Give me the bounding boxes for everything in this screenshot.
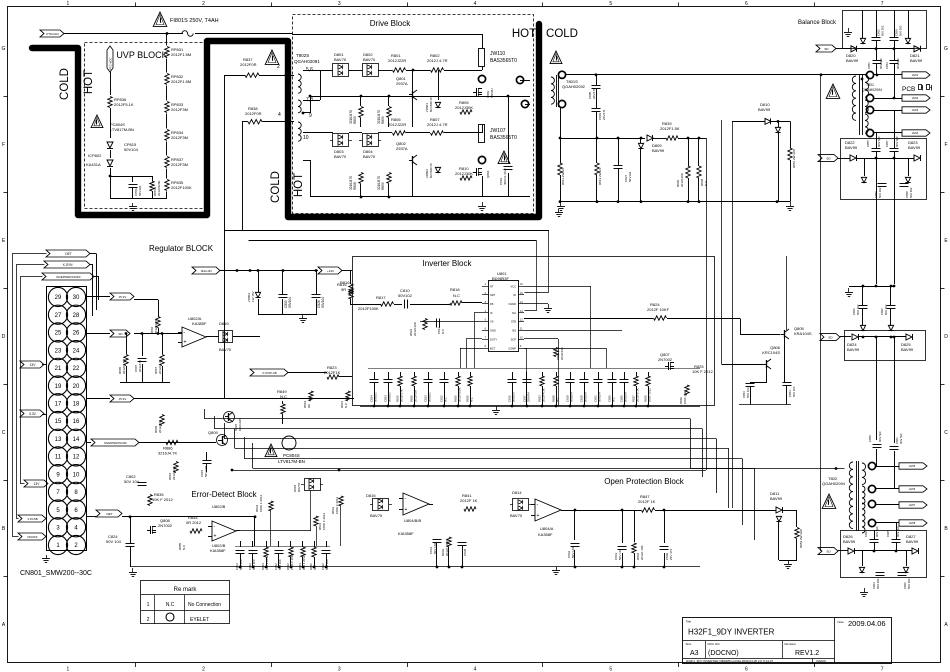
svg-text:50V104: 50V104 [570, 392, 574, 402]
svg-text:BAV99: BAV99 [758, 107, 771, 112]
svg-text:13V: 13V [30, 363, 37, 367]
svg-text:FI801S 250V, T4AH: FI801S 250V, T4AH [170, 18, 219, 24]
svg-text:3216J470: 3216J470 [377, 176, 381, 190]
svg-text:(DOCNO): (DOCNO) [708, 650, 739, 657]
svg-text:3216J470: 3216J470 [349, 176, 353, 190]
svg-text:HOT: HOT [293, 173, 305, 197]
svg-text:N.C: N.C [612, 397, 616, 402]
svg-text:2012J22R: 2012J22R [388, 122, 406, 127]
svg-text:2012J 4.7R: 2012J 4.7R [427, 58, 448, 63]
svg-text:BAV99: BAV99 [906, 539, 919, 544]
svg-text:LTV817M-BN: LTV817M-BN [278, 459, 305, 464]
svg-text:2012F20K: 2012F20K [680, 173, 684, 187]
svg-text:DOC NO.: DOC NO. [708, 642, 721, 646]
svg-text:SRT: SRT [490, 293, 496, 297]
svg-text:2012F100K: 2012F100K [358, 306, 379, 311]
svg-text:D: D [944, 334, 948, 340]
svg-text:2012F0R: 2012F0R [245, 111, 262, 116]
svg-text:COLD: COLD [546, 28, 578, 40]
svg-text:2012F100K: 2012F100K [171, 185, 192, 190]
svg-text:R851 2W 22R: R851 2W 22R [792, 148, 796, 168]
svg-text:2012F 10KF: 2012F 10KF [647, 307, 670, 312]
svg-text:KIA358F: KIA358F [398, 531, 414, 536]
svg-text:HV08: HV08 [909, 521, 916, 525]
svg-text:C: C [944, 430, 948, 436]
svg-text:2KV471: 2KV471 [602, 109, 606, 120]
svg-text:3216J470: 3216J470 [349, 110, 353, 124]
svg-text:15: 15 [55, 419, 62, 425]
svg-text:ICP802: ICP802 [88, 153, 102, 158]
svg-text:Q804: Q804 [486, 170, 490, 178]
svg-text:N.C: N.C [182, 544, 186, 550]
svg-text:FGND: FGND [509, 302, 516, 306]
svg-text:KRC104S: KRC104S [762, 350, 780, 355]
svg-text:BAV99: BAV99 [846, 58, 859, 63]
svg-text:4: 4 [474, 1, 477, 7]
svg-text:2012F1.5M: 2012F1.5M [171, 52, 191, 57]
svg-text:13V: 13V [34, 482, 41, 486]
svg-text:EYELET: EYELET [190, 617, 209, 623]
svg-text:6KV 5pF: 6KV 5pF [895, 136, 899, 147]
svg-text:H32F1_9DY INVERTER: H32F1_9DY INVERTER [688, 628, 775, 637]
svg-text:Error-Detect Block: Error-Detect Block [191, 490, 257, 499]
svg-text:10: 10 [73, 472, 80, 478]
svg-text:50V104: 50V104 [628, 171, 632, 182]
svg-text:50V 392: 50V 392 [878, 187, 882, 198]
svg-text:HV03: HV03 [912, 108, 919, 112]
svg-text:BAV99: BAV99 [901, 347, 914, 352]
svg-text:2N7002: 2N7002 [658, 357, 673, 362]
svg-text:HV05: HV05 [909, 464, 916, 468]
svg-text:3216J4.7K: 3216J4.7K [158, 451, 177, 456]
svg-text:16: 16 [73, 419, 80, 425]
svg-text:JW110: JW110 [490, 51, 505, 57]
svg-text:BS: BS [513, 329, 517, 333]
svg-text:Open Protection Block: Open Protection Block [604, 477, 685, 486]
svg-text:50V 104: 50V 104 [124, 479, 140, 484]
svg-text:DUTY: DUTY [490, 337, 497, 341]
svg-text:KA385F: KA385F [192, 321, 207, 326]
svg-text:2012J 4.7R: 2012J 4.7R [427, 122, 448, 127]
svg-text:100K F 2012: 100K F 2012 [259, 494, 263, 512]
svg-text:50V 104: 50V 104 [204, 465, 208, 477]
svg-text:BAV70: BAV70 [219, 347, 232, 352]
svg-text:KRA104S: KRA104S [794, 331, 812, 336]
svg-text:50V103: 50V103 [512, 392, 516, 402]
svg-text:BAV99: BAV99 [910, 58, 923, 63]
svg-text:R811 2W22J: R811 2W22J [561, 167, 565, 185]
svg-text:10: 10 [303, 135, 309, 141]
svg-text:2012F3M: 2012F3M [171, 162, 188, 167]
svg-text:PCB: PCB [902, 86, 915, 93]
svg-text:50V 104: 50V 104 [325, 559, 329, 570]
svg-text:2012F3M: 2012F3M [171, 107, 188, 112]
svg-text:CN801_SMW200--30C: CN801_SMW200--30C [20, 570, 92, 577]
svg-text:29: 29 [55, 295, 62, 301]
svg-text:2012474: 2012474 [138, 360, 142, 372]
svg-text:3216J470: 3216J470 [377, 110, 381, 124]
svg-text:22: 22 [73, 366, 80, 372]
svg-text:2937A: 2937A [396, 81, 408, 86]
svg-text:2N7002: 2N7002 [158, 523, 173, 528]
svg-text:QGAH02094: QGAH02094 [822, 481, 846, 486]
svg-text:COMP: COMP [508, 346, 516, 350]
svg-text:2: 2 [277, 64, 280, 70]
svg-text:2: 2 [202, 667, 205, 672]
svg-text:C851: C851 [867, 62, 871, 69]
svg-text:Drive Block: Drive Block [370, 19, 411, 28]
svg-text:H32F1_9DY INVERTER (9B0486).gc: H32F1_9DY INVERTER (9B0486).gchilla 2009… [686, 659, 774, 663]
svg-text:2012F10K: 2012F10K [413, 322, 417, 336]
svg-text:50V102: 50V102 [398, 293, 413, 298]
svg-text:2012F1M: 2012F1M [414, 390, 418, 402]
svg-text:LTV817M-BN: LTV817M-BN [110, 127, 134, 132]
svg-text:2012J22R: 2012J22R [388, 58, 406, 63]
svg-text:50V 392: 50V 392 [884, 304, 888, 315]
svg-text:6KV 5pF: 6KV 5pF [899, 433, 903, 444]
svg-text:6KV 5pF: 6KV 5pF [879, 58, 883, 69]
svg-text:1: 1 [66, 667, 69, 672]
svg-text:50V104: 50V104 [288, 297, 292, 308]
svg-text:KRA104S: KRA104S [238, 418, 242, 431]
svg-text:COLD: COLD [59, 68, 71, 100]
svg-text:6KV 5pF: 6KV 5pF [896, 58, 900, 69]
svg-text:KIA358F: KIA358F [210, 548, 226, 553]
svg-text:5: 5 [609, 667, 612, 672]
svg-text:R859: R859 [381, 182, 385, 190]
svg-text:COLD: COLD [270, 171, 282, 203]
svg-text:2012F 10K: 2012F 10K [640, 545, 644, 560]
svg-text:50V104: 50V104 [321, 297, 325, 308]
svg-text:2012F 1K: 2012F 1K [638, 499, 656, 504]
svg-text:R803: R803 [353, 116, 357, 124]
svg-text:12: 12 [73, 455, 80, 461]
svg-text:4: 4 [474, 667, 477, 672]
svg-text:D: D [2, 334, 6, 340]
svg-text:400V,0.47uF: 400V,0.47uF [503, 168, 507, 185]
svg-text:HV01: HV01 [912, 73, 919, 77]
svg-text:Q809: Q809 [208, 430, 219, 435]
svg-text:5: 5 [609, 1, 612, 7]
svg-text:R813 2W22J: R813 2W22J [598, 167, 602, 185]
svg-text:C863: C863 [864, 530, 868, 537]
svg-text:Re mark: Re mark [174, 587, 198, 593]
svg-text:BZX84C15: BZX84C15 [429, 97, 433, 112]
svg-text:N.C: N.C [441, 328, 445, 334]
svg-text:50V 104: 50V 104 [252, 559, 256, 570]
svg-text:26: 26 [73, 331, 80, 337]
svg-text:21: 21 [55, 366, 62, 372]
svg-text:R818: R818 [450, 287, 460, 292]
svg-text:10K F 2012: 10K F 2012 [152, 497, 173, 502]
svg-text:2012F3M: 2012F3M [171, 135, 188, 140]
svg-text:50V 392: 50V 392 [907, 578, 911, 589]
svg-text:BZX84C15: BZX84C15 [429, 163, 433, 178]
svg-text:BAV70: BAV70 [363, 57, 376, 62]
svg-text:2012F19K: 2012F19K [560, 347, 564, 360]
svg-text:+: + [537, 513, 540, 519]
svg-text:7,8: 7,8 [306, 97, 313, 103]
svg-text:50V104: 50V104 [624, 392, 628, 402]
svg-text:50V 104: 50V 104 [239, 559, 243, 570]
svg-text:T801: T801 [866, 83, 874, 87]
svg-text:HV07: HV07 [909, 503, 916, 507]
svg-text:50V101: 50V101 [374, 392, 378, 402]
svg-text:C859: C859 [868, 435, 872, 442]
svg-text:0R 2012: 0R 2012 [186, 520, 202, 525]
svg-text:50V 392: 50V 392 [881, 25, 885, 36]
svg-text:1W 15V: 1W 15V [251, 291, 255, 302]
svg-text:QGAH02092: QGAH02092 [562, 84, 586, 89]
svg-text:BAV99: BAV99 [908, 145, 921, 150]
svg-text:9R: 9R [341, 287, 346, 292]
svg-text:HV06: HV06 [909, 487, 916, 491]
svg-text:50V 392: 50V 392 [909, 187, 913, 198]
svg-text:C830: C830 [463, 548, 467, 556]
svg-text:NI: NI [513, 293, 516, 297]
svg-text:PTC-VCC: PTC-VCC [108, 58, 112, 70]
svg-text:2009.04.06: 2009.04.06 [848, 619, 886, 628]
svg-text:R859: R859 [381, 116, 385, 124]
svg-text:A3: A3 [690, 650, 699, 657]
svg-text:50V101: 50V101 [428, 392, 432, 402]
svg-text:Revision: Revision [785, 642, 797, 646]
svg-text:14: 14 [73, 437, 80, 443]
svg-text:C865: C865 [886, 530, 890, 537]
svg-text:J5.3V: J5.3V [119, 397, 127, 401]
svg-text:JW107: JW107 [490, 128, 506, 134]
svg-text:F: F [944, 142, 947, 148]
svg-text:N.C: N.C [470, 397, 474, 402]
svg-text:1: 1 [66, 1, 69, 7]
svg-text:VCC: VCC [511, 284, 517, 288]
svg-text:3: 3 [338, 667, 341, 672]
svg-text:R808: R808 [353, 182, 357, 190]
svg-text:5,6: 5,6 [306, 67, 313, 73]
svg-text:30: 30 [73, 295, 80, 301]
svg-text:50V 104: 50V 104 [106, 539, 122, 544]
svg-text:50V 392: 50V 392 [856, 304, 860, 315]
svg-text:BAS3565T0: BAS3565T0 [490, 135, 517, 141]
svg-text:BAV70: BAV70 [334, 57, 347, 62]
svg-text:Balance Block: Balance Block [798, 20, 837, 26]
svg-text:G: G [944, 46, 948, 52]
svg-text:No Connection: No Connection [188, 602, 221, 608]
svg-text:D814: D814 [512, 490, 522, 495]
svg-text:50V 392: 50V 392 [876, 578, 880, 589]
svg-text:N.C: N.C [704, 180, 708, 186]
svg-text:N.C: N.C [444, 397, 448, 402]
svg-text:6KV 5pF: 6KV 5pF [878, 431, 882, 442]
svg-text:2012F1.8K: 2012F1.8K [154, 319, 158, 334]
svg-text:NG: NG [512, 311, 516, 315]
svg-text:R817: R817 [376, 295, 386, 300]
svg-text:BAV99: BAV99 [770, 496, 783, 501]
svg-text:10KF 2012: 10KF 2012 [683, 390, 687, 404]
svg-text:BAS3565T0: BAS3565T0 [490, 58, 517, 64]
svg-text:Multi-13V: Multi-13V [201, 269, 212, 273]
svg-text:STB: STB [511, 320, 516, 324]
svg-text:4: 4 [278, 112, 281, 118]
svg-text:ON/OFF: ON/OFF [27, 535, 38, 539]
svg-text:18: 18 [73, 401, 80, 407]
svg-text:R852 2W 22R: R852 2W 22R [799, 528, 803, 548]
svg-text:6KV 5pF: 6KV 5pF [877, 136, 881, 147]
svg-text:KA431A: KA431A [86, 162, 101, 167]
svg-text:2012F4.7K: 2012F4.7K [158, 359, 162, 374]
svg-text:2012F 1K: 2012F 1K [460, 498, 478, 503]
svg-text:+: + [214, 534, 217, 540]
svg-text:11: 11 [55, 455, 62, 461]
svg-text:U802/B: U802/B [212, 504, 226, 509]
svg-text:X-SYNP-OB: X-SYNP-OB [262, 371, 277, 375]
svg-text:2012F100K: 2012F100K [458, 387, 462, 402]
svg-text:100K F 2012: 100K F 2012 [335, 496, 339, 514]
svg-text:2: 2 [202, 1, 205, 7]
svg-text:G: G [2, 46, 6, 52]
svg-text:+: + [405, 507, 408, 513]
svg-text:13: 13 [55, 437, 62, 443]
svg-text:T802S: T802S [296, 53, 309, 58]
svg-text:BAV70: BAV70 [297, 483, 301, 492]
svg-text:QGAH02091: QGAH02091 [294, 59, 320, 64]
svg-text:DET: DET [65, 252, 71, 256]
svg-text:2012/70K: 2012/70K [158, 420, 162, 433]
svg-text:50V101: 50V101 [388, 392, 392, 402]
svg-text:100K F 2012: 100K F 2012 [322, 512, 326, 530]
svg-text:3: 3 [338, 1, 341, 7]
svg-text:2012J30K: 2012J30K [455, 171, 473, 176]
svg-text:6: 6 [745, 1, 748, 7]
svg-text:3.3V/SB: 3.3V/SB [27, 517, 37, 521]
svg-text:IS: IS [490, 311, 493, 315]
svg-text:+: + [184, 340, 187, 346]
svg-text:SCP: SCP [511, 337, 517, 341]
svg-text:C: C [2, 430, 6, 436]
svg-text:D816: D816 [366, 493, 376, 498]
svg-text:BAV70: BAV70 [370, 513, 383, 518]
svg-text:10KF 2012: 10KF 2012 [648, 388, 652, 402]
svg-text:6: 6 [745, 667, 748, 672]
svg-text:Inverter Block: Inverter Block [423, 259, 473, 268]
svg-text:BD9893F: BD9893F [492, 276, 509, 281]
svg-text:INVERTERON/OFF: INVERTERON/OFF [104, 441, 127, 445]
svg-text:N.C: N.C [453, 293, 460, 298]
svg-text:FB: FB [490, 302, 494, 306]
svg-text:2012F820K: 2012F820K [157, 180, 161, 196]
svg-text:(SHN0): (SHN0) [816, 659, 826, 663]
svg-text:PC804S: PC804S [283, 453, 300, 458]
svg-text:50V 104: 50V 104 [792, 386, 796, 397]
svg-text:BAV99: BAV99 [843, 539, 856, 544]
svg-text:2: 2 [147, 617, 150, 623]
svg-text:50V 104: 50V 104 [618, 548, 622, 560]
svg-text:UVP BLOCK: UVP BLOCK [116, 50, 167, 60]
svg-text:Note: Note [838, 620, 845, 624]
svg-text:2KV471: 2KV471 [592, 88, 596, 99]
svg-text:U804/B/B: U804/B/B [404, 518, 421, 523]
svg-text:2937A: 2937A [396, 146, 408, 151]
svg-text:HV04: HV04 [912, 131, 919, 135]
svg-text:2012F1.5M: 2012F1.5M [122, 358, 126, 374]
svg-text:BAV70: BAV70 [510, 513, 523, 518]
svg-text:INVERTERON/OFF: INVERTERON/OFF [56, 275, 81, 279]
svg-text:2012F1.5K: 2012F1.5K [660, 126, 680, 131]
svg-text:25: 25 [55, 331, 62, 337]
svg-text:RT: RT [490, 284, 494, 288]
svg-text:C853: C853 [885, 62, 889, 69]
svg-text:50V104: 50V104 [138, 185, 142, 196]
svg-text:BAV99: BAV99 [847, 347, 860, 352]
svg-text:REV1.2: REV1.2 [795, 650, 819, 657]
svg-text:Size: Size [686, 642, 692, 646]
svg-text:N.C: N.C [166, 602, 175, 608]
svg-text:25V474: 25V474 [527, 392, 531, 402]
svg-text:50V104: 50V104 [598, 392, 602, 402]
svg-text:HV02: HV02 [912, 96, 919, 100]
svg-text:19: 19 [55, 384, 62, 390]
svg-text:25V 474: 25V 474 [669, 548, 673, 560]
svg-text:24: 24 [73, 348, 80, 354]
svg-text:50V104: 50V104 [124, 147, 139, 152]
svg-text:Title: Title [686, 620, 692, 624]
svg-text:2012F27K: 2012F27K [400, 389, 404, 402]
svg-text:1: 1 [147, 602, 150, 608]
svg-text:27: 27 [55, 313, 62, 319]
svg-text:50V 104: 50V 104 [278, 559, 282, 570]
svg-text:C855: C855 [866, 140, 870, 147]
svg-text:50V 392: 50V 392 [899, 25, 903, 36]
svg-text:23: 23 [55, 348, 62, 354]
svg-text:50V104: 50V104 [584, 392, 588, 402]
svg-text:10K F 2012: 10K F 2012 [692, 369, 713, 374]
svg-text:GND: GND [490, 329, 496, 333]
svg-text:2012F0R: 2012F0R [240, 62, 257, 67]
svg-text:KA358F: KA358F [538, 532, 553, 537]
svg-text:2012J30K: 2012J30K [455, 105, 473, 110]
svg-text:BAV70: BAV70 [363, 154, 376, 159]
svg-text:BCT: BCT [490, 346, 496, 350]
svg-text:N.C: N.C [344, 402, 348, 408]
svg-text:Regulator BLOCK: Regulator BLOCK [149, 244, 214, 253]
svg-text:20: 20 [73, 384, 80, 390]
svg-text:N.C: N.C [280, 394, 287, 399]
svg-text:HOT: HOT [512, 28, 536, 40]
svg-text:DET: DET [107, 512, 113, 516]
svg-text:7: 7 [881, 667, 884, 672]
svg-text:PTGOLD: PTGOLD [46, 32, 59, 36]
svg-text:7: 7 [881, 1, 884, 7]
svg-text:9: 9 [309, 113, 312, 119]
svg-text:2012F4.3K: 2012F4.3K [542, 388, 546, 402]
svg-text:BAV99: BAV99 [845, 145, 858, 150]
svg-text:17: 17 [55, 401, 62, 407]
svg-text:J5.3V: J5.3V [119, 295, 127, 299]
svg-text:2012F5.1K: 2012F5.1K [114, 102, 134, 107]
svg-text:N.C: N.C [556, 397, 560, 402]
svg-text:F: F [2, 142, 5, 148]
svg-text:C857: C857 [885, 140, 889, 147]
svg-text:X-SYN: X-SYN [63, 263, 73, 267]
svg-text:BAV70: BAV70 [334, 154, 347, 159]
svg-text:2012F19K: 2012F19K [172, 466, 176, 480]
svg-text:VS: VS [490, 320, 494, 324]
svg-text:+13V: +13V [327, 269, 334, 273]
svg-text:BAV99: BAV99 [652, 148, 665, 153]
svg-text:50V 104: 50V 104 [746, 387, 750, 398]
svg-text:2012F1.5M: 2012F1.5M [171, 79, 191, 84]
svg-text:5.3V: 5.3V [29, 412, 36, 416]
